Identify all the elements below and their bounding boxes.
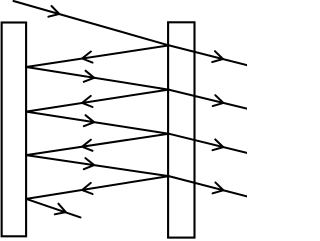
arrowhead on reflected ray 2 <box>82 96 92 107</box>
transmitted ray 4 <box>169 176 247 196</box>
reflected ray 2 <box>26 90 168 112</box>
arrowhead on internal ray 4 <box>84 158 94 169</box>
internal ray 4 <box>26 155 169 176</box>
left plate (fully reflecting mirror) <box>2 23 26 237</box>
arrowhead on transmitted ray 4 <box>213 182 224 193</box>
reflected ray 1 (right plate to left plate) <box>26 45 169 67</box>
arrowhead on transmitted ray 2 <box>213 95 224 106</box>
arrowhead on transmitted ray 3 <box>213 139 224 150</box>
exit ray at bottom of left plate <box>26 199 80 218</box>
transmitted ray 3 <box>169 134 247 153</box>
internal ray 3 <box>26 112 169 134</box>
arrowhead on transmitted ray 1 <box>212 51 223 62</box>
right plate (partially transmitting mirror) <box>168 22 194 237</box>
arrowhead on internal ray 3 <box>84 115 94 126</box>
incident ray <box>14 1 170 45</box>
arrowhead on reflected ray 3 <box>82 140 92 151</box>
transmitted ray 1 <box>169 45 247 65</box>
arrowhead on exit ray <box>55 204 66 215</box>
reflected ray 4 <box>26 176 169 199</box>
internal ray 2 (left plate to right plate) <box>26 67 168 90</box>
transmitted ray 2 <box>169 90 248 109</box>
arrowhead on reflected ray 4 <box>82 183 93 194</box>
arrowhead on reflected ray 1 <box>82 52 92 63</box>
arrowhead on incident ray <box>48 6 59 17</box>
arrowhead on internal ray 2 <box>84 71 95 82</box>
reflected ray 3 <box>26 134 169 155</box>
